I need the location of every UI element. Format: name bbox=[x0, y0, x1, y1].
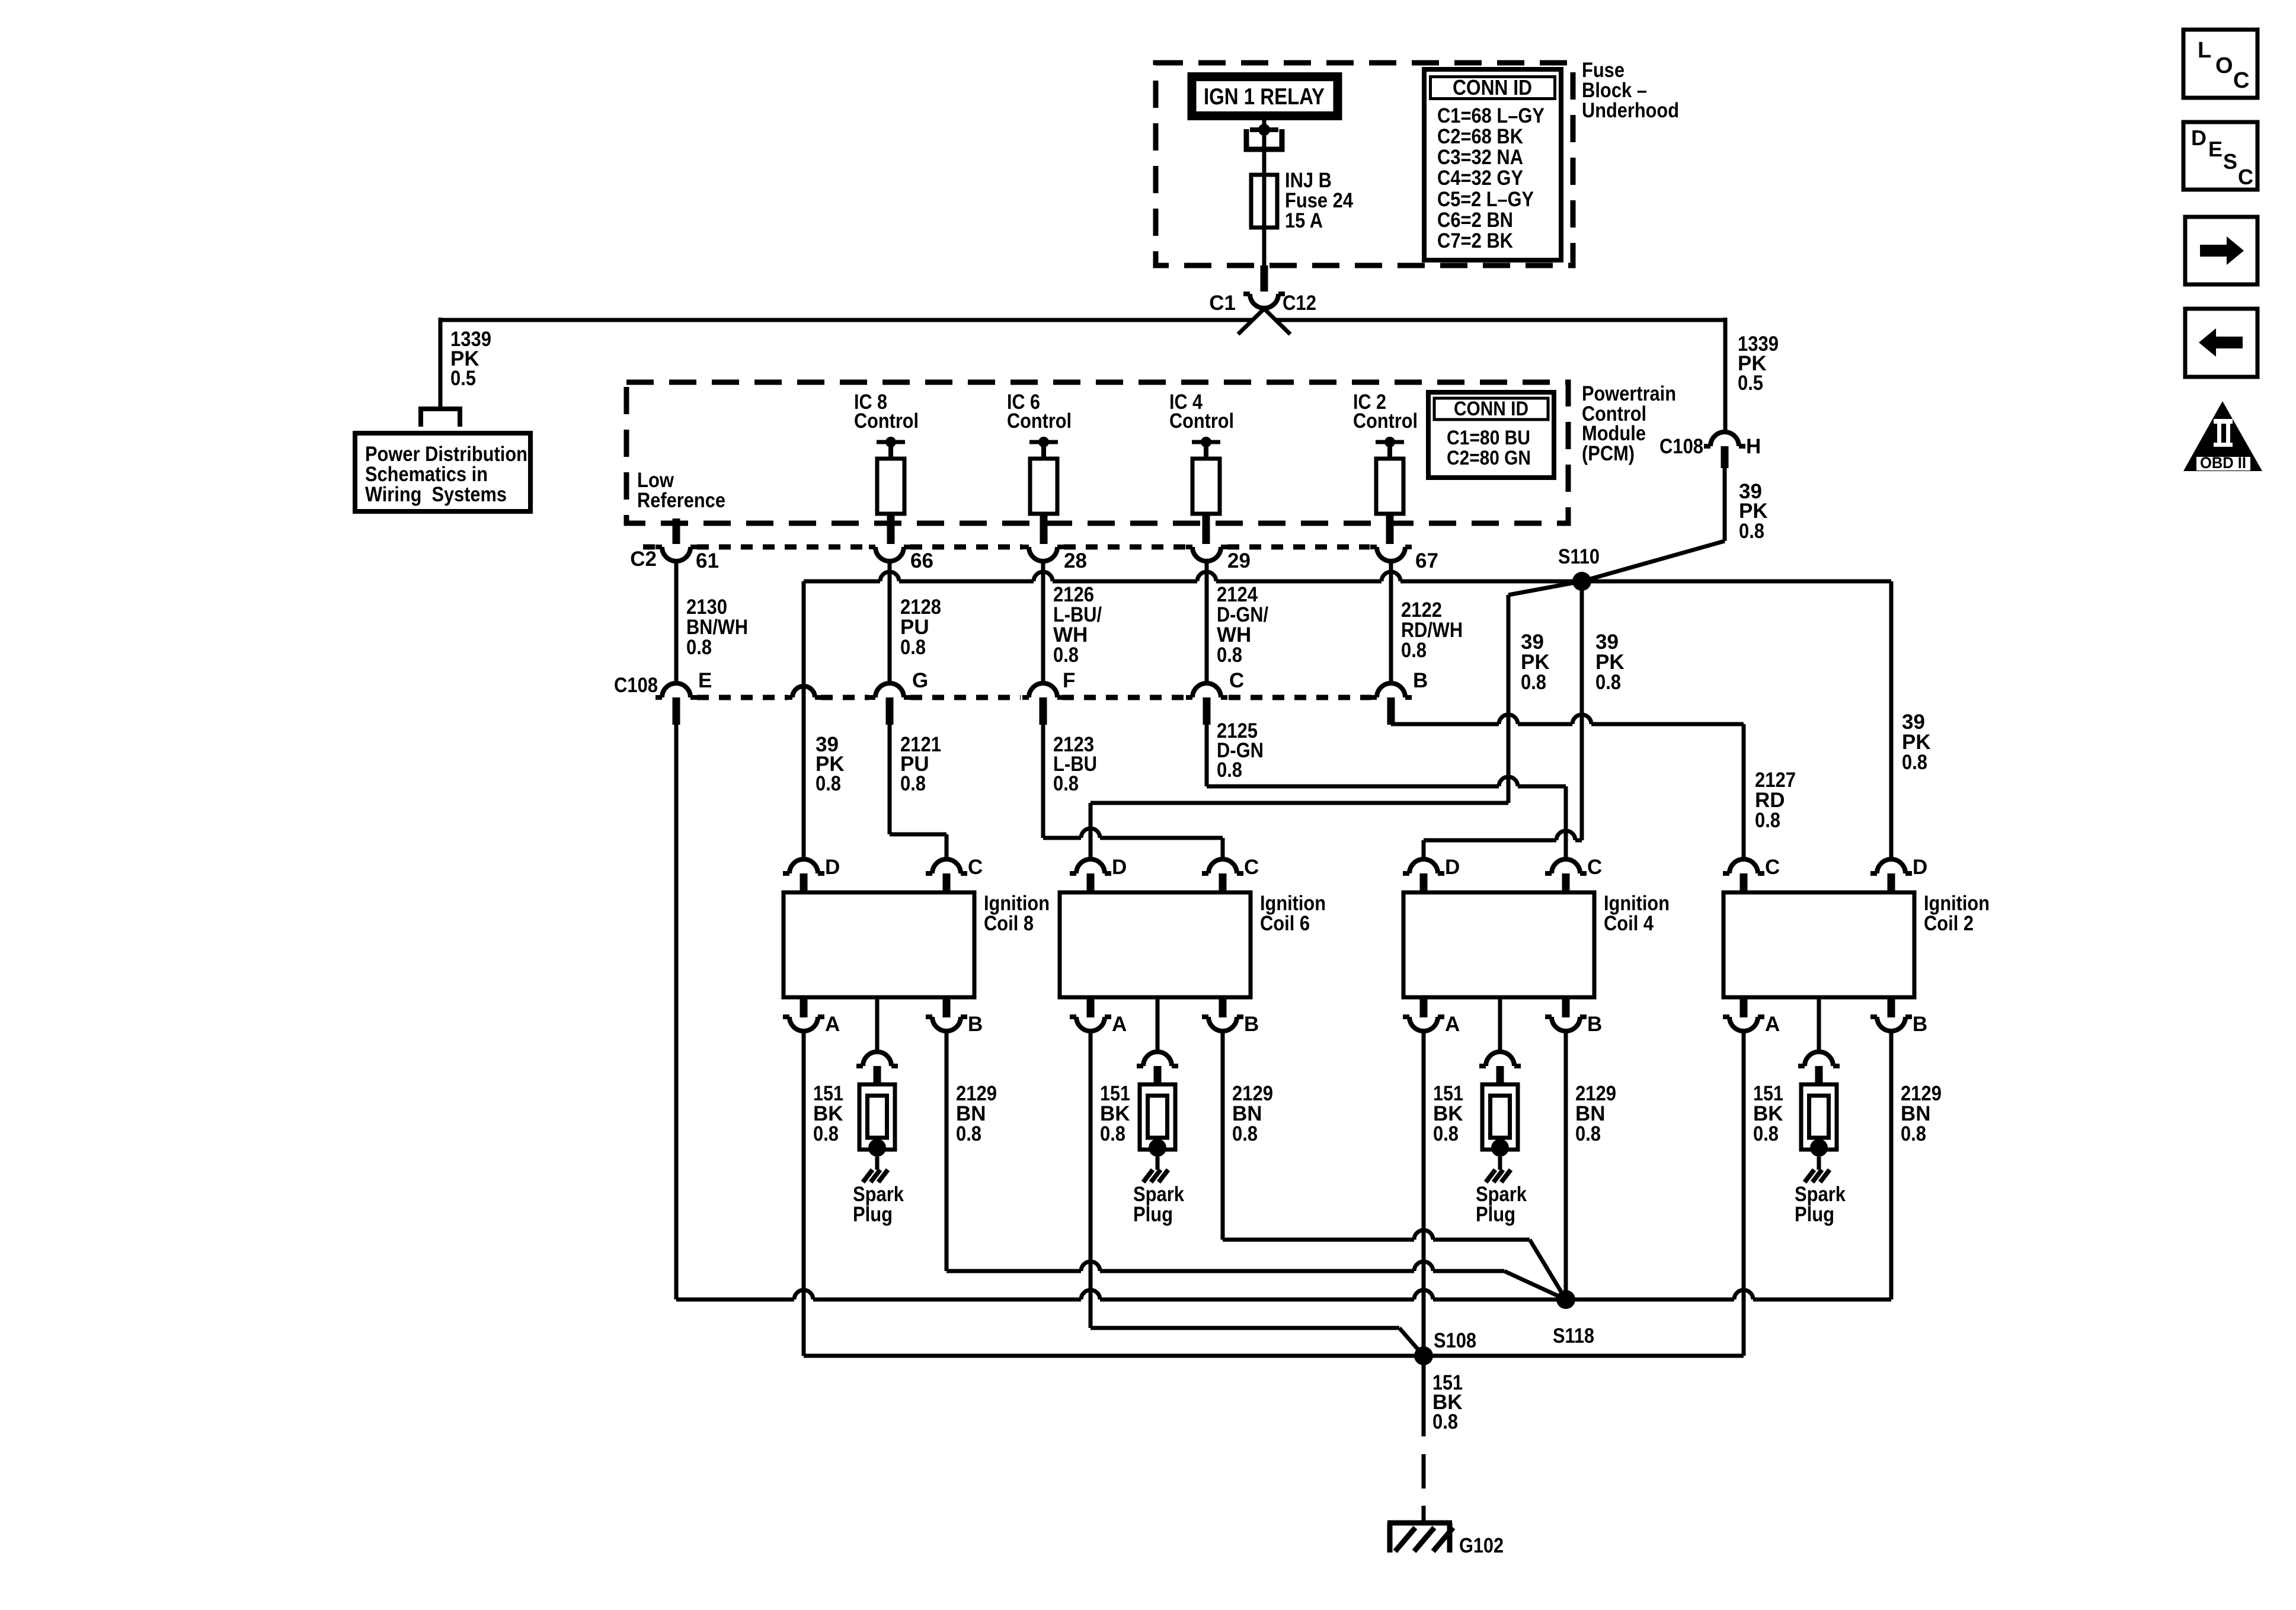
driver IC 4 control bbox=[1192, 437, 1220, 544]
wire bus left drop bbox=[439, 318, 443, 409]
icon DESC box bbox=[2183, 122, 2257, 190]
svg-text:C3=32 NA: C3=32 NA bbox=[1437, 146, 1523, 169]
svg-text:C: C bbox=[2233, 68, 2249, 93]
pin 61 stub bbox=[673, 518, 680, 544]
wire ignition feed bus right bbox=[1275, 318, 1725, 322]
svg-text:E: E bbox=[698, 669, 712, 692]
wire coil 4 B drop bbox=[1564, 1031, 1568, 1299]
svg-text:Coil 6: Coil 6 bbox=[1260, 912, 1310, 935]
wire 61 to E bbox=[674, 561, 679, 683]
label Coil 6 A bbox=[1112, 1013, 1127, 1036]
connector C108 pin G bbox=[869, 683, 910, 725]
svg-text:G: G bbox=[912, 669, 928, 692]
ignition coil box Coil 4 bbox=[1403, 892, 1594, 997]
label Coil 6 D bbox=[1112, 856, 1127, 879]
svg-text:0.8: 0.8 bbox=[900, 772, 926, 795]
Coil 6 pin C (top right) bbox=[1202, 859, 1243, 892]
label Coil 8 A bbox=[825, 1013, 840, 1036]
label Coil 2 C bbox=[1765, 856, 1780, 879]
label circuit 2128 PU 0.8 bbox=[900, 596, 941, 659]
spark plug ground (Coil 4) bbox=[1486, 1170, 1511, 1182]
svg-text:B: B bbox=[1587, 1013, 1602, 1036]
svg-text:C1=68 L–GY: C1=68 L–GY bbox=[1437, 104, 1544, 127]
svg-text:C: C bbox=[1244, 856, 1259, 879]
label pin 61 bbox=[696, 549, 719, 572]
wire coil 4 A drop bbox=[1422, 1031, 1426, 1356]
label pin C bbox=[1229, 669, 1244, 692]
connector C2 pin 28 bbox=[1022, 547, 1064, 561]
driver IC 2 control bbox=[1376, 437, 1404, 544]
wire C to coil 4 C bbox=[1207, 725, 1566, 859]
svg-text:S118: S118 bbox=[1553, 1324, 1594, 1347]
Coil 2 pin B bbox=[1870, 997, 1912, 1031]
svg-text:66: 66 bbox=[910, 549, 933, 572]
svg-text:C6=2 BN: C6=2 BN bbox=[1437, 209, 1513, 232]
svg-text:C: C bbox=[1765, 856, 1780, 879]
Coil 4 pin C (top right) bbox=[1545, 859, 1587, 892]
svg-text:C: C bbox=[1229, 669, 1244, 692]
wire ignition feed bus left bbox=[440, 318, 1253, 322]
label circuit 151 BK 0.8 (Coil 6) bbox=[1100, 1082, 1130, 1145]
svg-text:C2=80 GN: C2=80 GN bbox=[1447, 447, 1531, 469]
label Spark Plug (Coil 6) bbox=[1133, 1183, 1184, 1226]
svg-text:0.8: 0.8 bbox=[1217, 758, 1242, 782]
label Ignition Coil 6 bbox=[1260, 892, 1326, 935]
svg-text:28: 28 bbox=[1064, 549, 1087, 572]
svg-text:C7=2 BK: C7=2 BK bbox=[1437, 229, 1513, 252]
connector C108 pin C bbox=[1186, 683, 1227, 725]
wire Coil 8 to spark plug bbox=[875, 997, 880, 1052]
label circuit 2124 D-GN/WH 0.8 bbox=[1217, 583, 1268, 667]
label pin 67 bbox=[1415, 549, 1438, 572]
label Coil 4 B bbox=[1587, 1013, 1602, 1036]
svg-text:C2=68 BK: C2=68 BK bbox=[1437, 125, 1523, 148]
connector C2 pin 61 bbox=[655, 547, 697, 561]
wire coil 8 B ground bus bbox=[946, 1031, 1566, 1299]
label Coil 6 C bbox=[1244, 856, 1259, 879]
svg-text:Plug: Plug bbox=[853, 1203, 893, 1226]
Coil 4 pin D (top left) bbox=[1403, 859, 1444, 892]
label IC 6 control bbox=[1007, 391, 1072, 433]
svg-text:C108: C108 bbox=[614, 674, 658, 697]
svg-text:Control: Control bbox=[1353, 409, 1418, 433]
label circuit 39 PK 0.8 (S110 left) bbox=[1521, 630, 1550, 694]
label circuit 39 PK 0.8 (S110 down) bbox=[1595, 630, 1625, 694]
label IC 2 control bbox=[1353, 391, 1418, 433]
svg-text:C2: C2 bbox=[630, 548, 657, 571]
label Coil 2 B bbox=[1913, 1013, 1927, 1036]
label C1 bbox=[1209, 292, 1236, 315]
ground G102 bbox=[1387, 1523, 1453, 1553]
Coil 8 pin D (top left) bbox=[783, 859, 824, 892]
label Ignition Coil 8 bbox=[984, 892, 1050, 935]
connector C108 dashed row bbox=[697, 695, 1371, 700]
svg-text:Coil 8: Coil 8 bbox=[984, 912, 1034, 935]
wire 29 to C bbox=[1205, 561, 1209, 683]
wire fuse to connector C1 bbox=[1261, 228, 1268, 292]
svg-text:Control: Control bbox=[1007, 409, 1072, 433]
spark plug pin (Coil 6) bbox=[1137, 1052, 1178, 1086]
label low reference bbox=[637, 469, 725, 512]
connector C2 pin 66 bbox=[869, 547, 910, 561]
svg-text:A: A bbox=[1445, 1013, 1460, 1036]
label pin 29 bbox=[1227, 549, 1251, 572]
label Coil 6 B bbox=[1244, 1013, 1259, 1036]
wire bus right drop to C108 H bbox=[1723, 318, 1728, 432]
label Coil 8 C bbox=[968, 856, 983, 879]
wire low reference bus to S118 bbox=[676, 1290, 1891, 1299]
label circuit 1339 PK 0.5 right bbox=[1738, 332, 1779, 395]
svg-text:Wiring Systems: Wiring Systems bbox=[365, 483, 507, 506]
wire S110 branch to coil 4 D bbox=[1424, 581, 1582, 859]
box power distribution reference bbox=[355, 433, 530, 511]
connector C108 pin B bbox=[1370, 683, 1412, 725]
label pin 66 bbox=[910, 549, 933, 572]
connector C1/C12 pin bbox=[1243, 294, 1285, 308]
ignition coil box Coil 2 bbox=[1723, 892, 1914, 997]
label C12 bbox=[1283, 292, 1316, 315]
label G102 bbox=[1459, 1534, 1504, 1557]
wire F to coil 6 C bbox=[1043, 725, 1223, 859]
svg-text:B: B bbox=[968, 1013, 983, 1036]
connector C108 pin F bbox=[1022, 683, 1064, 725]
Coil 6 pin A bbox=[1070, 997, 1111, 1031]
svg-text:H: H bbox=[1746, 435, 1761, 458]
wire H to S110 bbox=[1582, 468, 1725, 581]
svg-text:C12: C12 bbox=[1283, 292, 1316, 315]
svg-text:0.8: 0.8 bbox=[686, 636, 712, 659]
svg-text:D: D bbox=[2191, 126, 2207, 150]
powertrain control module dashed enclosure bbox=[626, 382, 1568, 523]
label circuit 2123 L-BU 0.8 bbox=[1053, 733, 1097, 795]
svg-text:0.8: 0.8 bbox=[1902, 751, 1927, 774]
svg-text:0.8: 0.8 bbox=[1753, 1122, 1779, 1145]
svg-text:C: C bbox=[968, 856, 983, 879]
svg-text:C5=2 L–GY: C5=2 L–GY bbox=[1437, 188, 1534, 211]
spark plug pin (Coil 2) bbox=[1798, 1052, 1840, 1086]
svg-text:Coil 4: Coil 4 bbox=[1604, 912, 1654, 935]
svg-text:B: B bbox=[1913, 1013, 1927, 1036]
svg-text:F: F bbox=[1063, 669, 1075, 692]
spark plug ground (Coil 6) bbox=[1143, 1170, 1168, 1182]
svg-text:(PCM): (PCM) bbox=[1582, 442, 1635, 465]
label C108 (H) bbox=[1659, 435, 1703, 458]
spark plug ground (Coil 8) bbox=[863, 1170, 888, 1182]
svg-text:OBD II: OBD II bbox=[2200, 454, 2246, 472]
label Coil 4 C bbox=[1587, 856, 1602, 879]
label Coil 2 A bbox=[1765, 1013, 1780, 1036]
label S108 bbox=[1434, 1329, 1476, 1352]
connector C108 pin E bbox=[655, 683, 697, 725]
label IC 4 control bbox=[1169, 391, 1234, 433]
svg-text:IGN 1 RELAY: IGN 1 RELAY bbox=[1204, 84, 1325, 110]
wire S110 branch to coil 2 D bbox=[1889, 581, 1894, 859]
svg-text:0.8: 0.8 bbox=[1755, 809, 1780, 832]
label Ignition Coil 2 bbox=[1924, 892, 1990, 935]
wire coil 2 B drop bbox=[1889, 1031, 1894, 1299]
svg-text:0.8: 0.8 bbox=[1053, 772, 1079, 795]
relay box K: IGN 1 RELAY bbox=[1192, 77, 1338, 116]
svg-text:CONN ID: CONN ID bbox=[1454, 398, 1528, 420]
wire 39 PK splice bus S110 bbox=[804, 572, 1891, 581]
spark plug body (Coil 8) bbox=[859, 1084, 895, 1170]
off-page connector bracket bbox=[421, 409, 460, 427]
spark plug body (Coil 6) bbox=[1140, 1084, 1175, 1170]
svg-text:Control: Control bbox=[1169, 409, 1234, 433]
label circuit 151 BK 0.8 (Coil 8) bbox=[813, 1082, 843, 1145]
svg-text:D: D bbox=[825, 856, 840, 879]
Coil 8 pin A bbox=[783, 997, 824, 1031]
wire coil 6 B ground bus bbox=[1223, 1031, 1566, 1299]
wire S108 to ground bbox=[1422, 1356, 1426, 1522]
connector C2 pin 29 bbox=[1186, 547, 1227, 561]
svg-text:Plug: Plug bbox=[1133, 1203, 1173, 1226]
icon arrow left box bbox=[2185, 309, 2257, 377]
svg-text:D: D bbox=[1913, 856, 1927, 879]
svg-text:S108: S108 bbox=[1434, 1329, 1476, 1352]
splice S108 bbox=[1414, 1346, 1433, 1365]
label H bbox=[1746, 435, 1761, 458]
splice S110 bbox=[1572, 572, 1591, 591]
Coil 6 pin B bbox=[1202, 997, 1243, 1031]
svg-text:0.5: 0.5 bbox=[450, 367, 476, 390]
fuse F: INJ B Fuse 24 15 A bbox=[1251, 175, 1277, 228]
Coil 8 pin B bbox=[926, 997, 967, 1031]
svg-text:C108: C108 bbox=[1659, 435, 1703, 458]
label S118 bbox=[1553, 1324, 1594, 1347]
svg-text:Coil 2: Coil 2 bbox=[1924, 912, 1974, 935]
wire coil 6 A ground bus bbox=[1091, 1031, 1424, 1356]
label fuse block underhood bbox=[1582, 59, 1679, 122]
svg-text:0.8: 0.8 bbox=[1595, 671, 1621, 694]
label C108 (row) bbox=[614, 674, 658, 697]
svg-text:0.8: 0.8 bbox=[1901, 1122, 1926, 1145]
svg-text:Underhood: Underhood bbox=[1582, 99, 1679, 122]
Coil 2 pin D (top right) bbox=[1870, 859, 1912, 892]
label circuit 1339 PK 0.5 left bbox=[450, 328, 491, 390]
spark plug pin (Coil 8) bbox=[856, 1052, 898, 1086]
svg-text:0.8: 0.8 bbox=[1575, 1122, 1601, 1145]
label circuit 151 BK 0.8 (Coil 4) bbox=[1433, 1082, 1463, 1145]
label circuit 2129 BN 0.8 (Coil 8) bbox=[956, 1082, 997, 1145]
spark plug body (Coil 2) bbox=[1801, 1084, 1837, 1170]
spark plug ground (Coil 2) bbox=[1805, 1170, 1830, 1182]
svg-text:C4=32 GY: C4=32 GY bbox=[1437, 167, 1523, 190]
spark plug pin (Coil 4) bbox=[1479, 1052, 1521, 1086]
svg-text:67: 67 bbox=[1415, 549, 1438, 572]
svg-text:B: B bbox=[1413, 669, 1428, 692]
ignition coil box Coil 8 bbox=[784, 892, 974, 997]
svg-text:0.8: 0.8 bbox=[1521, 671, 1546, 694]
relay contact bar and dot bbox=[1250, 124, 1278, 136]
svg-text:A: A bbox=[1112, 1013, 1127, 1036]
svg-text:0.8: 0.8 bbox=[1433, 1122, 1459, 1145]
Coil 4 pin B bbox=[1545, 997, 1587, 1031]
label circuit 151 BK 0.8 (Coil 2) bbox=[1753, 1082, 1783, 1145]
spark plug body (Coil 4) bbox=[1482, 1084, 1518, 1170]
svg-text:E: E bbox=[2208, 137, 2223, 161]
svg-text:0.8: 0.8 bbox=[1053, 644, 1079, 667]
label circuit 151 BK 0.8 (ground) bbox=[1432, 1371, 1463, 1433]
svg-text:S110: S110 bbox=[1558, 545, 1600, 568]
label Coil 4 A bbox=[1445, 1013, 1460, 1036]
label powertrain control module bbox=[1582, 382, 1676, 465]
Coil 2 pin A bbox=[1723, 997, 1764, 1031]
label Spark Plug (Coil 4) bbox=[1476, 1183, 1527, 1226]
fuse label bbox=[1285, 169, 1353, 232]
wire coil 8 A ground bus bbox=[804, 1031, 1744, 1356]
svg-text:0.8: 0.8 bbox=[956, 1122, 981, 1145]
svg-text:A: A bbox=[825, 1013, 840, 1036]
svg-text:0.8: 0.8 bbox=[1217, 644, 1242, 667]
wire B to coil 2 C bbox=[1391, 715, 1744, 859]
wire Coil 4 to spark plug bbox=[1498, 997, 1502, 1052]
label Coil 8 D bbox=[825, 856, 840, 879]
label pin 28 bbox=[1064, 549, 1087, 572]
svg-text:0.5: 0.5 bbox=[1738, 372, 1763, 395]
label circuit 2129 BN 0.8 (Coil 4) bbox=[1575, 1082, 1616, 1145]
svg-text:15 A: 15 A bbox=[1285, 209, 1323, 232]
wire 66 to G bbox=[888, 561, 892, 683]
svg-text:0.8: 0.8 bbox=[1739, 520, 1764, 543]
svg-text:D: D bbox=[1445, 856, 1460, 879]
svg-text:C1=80 BU: C1=80 BU bbox=[1447, 427, 1530, 449]
label pin G bbox=[912, 669, 928, 692]
label circuit 2121 PU 0.8 bbox=[900, 733, 941, 795]
svg-text:29: 29 bbox=[1227, 549, 1251, 572]
svg-text:Reference: Reference bbox=[637, 489, 725, 512]
connector C108 pin H bbox=[1704, 432, 1745, 468]
svg-text:L: L bbox=[2198, 38, 2211, 63]
svg-text:0.8: 0.8 bbox=[1401, 639, 1427, 662]
svg-text:Control: Control bbox=[854, 409, 919, 433]
label circuit 2129 BN 0.8 (Coil 2) bbox=[1901, 1082, 1942, 1145]
wire 67 to B bbox=[1389, 561, 1393, 683]
label Coil 4 D bbox=[1445, 856, 1460, 879]
Coil 2 pin C (top left) bbox=[1723, 859, 1764, 892]
label circuit 2127 RD 0.8 bbox=[1755, 769, 1796, 832]
svg-text:C: C bbox=[2238, 165, 2253, 189]
driver IC 6 control bbox=[1029, 437, 1058, 544]
svg-text:0.8: 0.8 bbox=[816, 772, 841, 795]
label circuit 2129 BN 0.8 (Coil 6) bbox=[1232, 1082, 1273, 1145]
svg-text:A: A bbox=[1765, 1013, 1780, 1036]
Coil 6 pin D (top left) bbox=[1070, 859, 1111, 892]
svg-text:D: D bbox=[1112, 856, 1127, 879]
label circuit 39 PK 0.8 (H drop) bbox=[1739, 480, 1768, 543]
svg-text:0.8: 0.8 bbox=[900, 636, 926, 659]
icon OBD II triangle bbox=[2183, 401, 2262, 472]
conn id table (fuse block) bbox=[1424, 69, 1561, 260]
svg-text:Plug: Plug bbox=[1795, 1203, 1834, 1226]
label circuit 2130 BN/WH 0.8 bbox=[686, 596, 748, 659]
wire relay to fuse bbox=[1262, 118, 1267, 175]
hop over C108 row bbox=[786, 686, 821, 697]
svg-text:0.8: 0.8 bbox=[1432, 1410, 1458, 1433]
label C2 bbox=[630, 548, 657, 571]
wire split V below C1 bbox=[1238, 309, 1290, 334]
Coil 8 pin C (top right) bbox=[926, 859, 967, 892]
wire 28 to F bbox=[1041, 561, 1045, 683]
svg-text:G102: G102 bbox=[1459, 1534, 1504, 1557]
wire S110 branch to coil 6 D bbox=[1091, 581, 1582, 859]
svg-text:CONN ID: CONN ID bbox=[1453, 75, 1532, 100]
label Coil 8 B bbox=[968, 1013, 983, 1036]
label Ignition Coil 4 bbox=[1604, 892, 1670, 935]
svg-text:C: C bbox=[1587, 856, 1602, 879]
Coil 4 pin A bbox=[1403, 997, 1444, 1031]
wire Coil 2 to spark plug bbox=[1817, 997, 1821, 1052]
label Coil 2 D bbox=[1913, 856, 1927, 879]
fuse block - underhood dashed enclosure bbox=[1156, 63, 1573, 265]
svg-text:O: O bbox=[2215, 53, 2233, 78]
ignition coil box Coil 6 bbox=[1060, 892, 1251, 997]
label circuit 39 PK 0.8 (right) bbox=[1902, 710, 1931, 774]
svg-text:Plug: Plug bbox=[1476, 1203, 1515, 1226]
svg-text:0.8: 0.8 bbox=[1100, 1122, 1125, 1145]
connector C2 dashed row bbox=[643, 545, 1370, 550]
label circuit 39 PK 0.8 (coil 8 feed) bbox=[816, 733, 845, 795]
wire G to coil 8 C bbox=[890, 725, 946, 859]
label circuit 2126 L-BU/WH 0.8 bbox=[1053, 583, 1102, 667]
icon LOC box bbox=[2183, 30, 2257, 98]
wire bus to coil 8 D bbox=[802, 581, 806, 859]
conn id table (PCM) bbox=[1428, 392, 1554, 478]
splice S118 bbox=[1556, 1290, 1575, 1309]
driver IC 8 control bbox=[877, 437, 905, 544]
label circuit 2122 RD/WH 0.8 bbox=[1401, 598, 1463, 662]
svg-text:0.8: 0.8 bbox=[1232, 1122, 1258, 1145]
wire E low reference return bbox=[674, 725, 679, 1299]
svg-text:C1: C1 bbox=[1209, 292, 1236, 315]
icon arrow right box bbox=[2185, 217, 2257, 284]
svg-text:S: S bbox=[2223, 149, 2237, 174]
svg-text:61: 61 bbox=[696, 549, 719, 572]
label pin B bbox=[1413, 669, 1428, 692]
label S110 bbox=[1558, 545, 1600, 568]
wire Coil 6 to spark plug bbox=[1156, 997, 1160, 1052]
label pin F bbox=[1063, 669, 1075, 692]
label pin E bbox=[698, 669, 712, 692]
wire coil 2 A drop bbox=[1742, 1031, 1746, 1356]
label circuit 2125 D-GN 0.8 bbox=[1217, 719, 1264, 782]
connector C2 pin 67 bbox=[1370, 547, 1412, 561]
label Spark Plug (Coil 8) bbox=[853, 1183, 904, 1226]
svg-text:0.8: 0.8 bbox=[813, 1122, 839, 1145]
relay contact bracket bbox=[1246, 129, 1282, 149]
label IC 8 control bbox=[854, 391, 919, 433]
label Spark Plug (Coil 2) bbox=[1795, 1183, 1846, 1226]
svg-text:B: B bbox=[1244, 1013, 1259, 1036]
